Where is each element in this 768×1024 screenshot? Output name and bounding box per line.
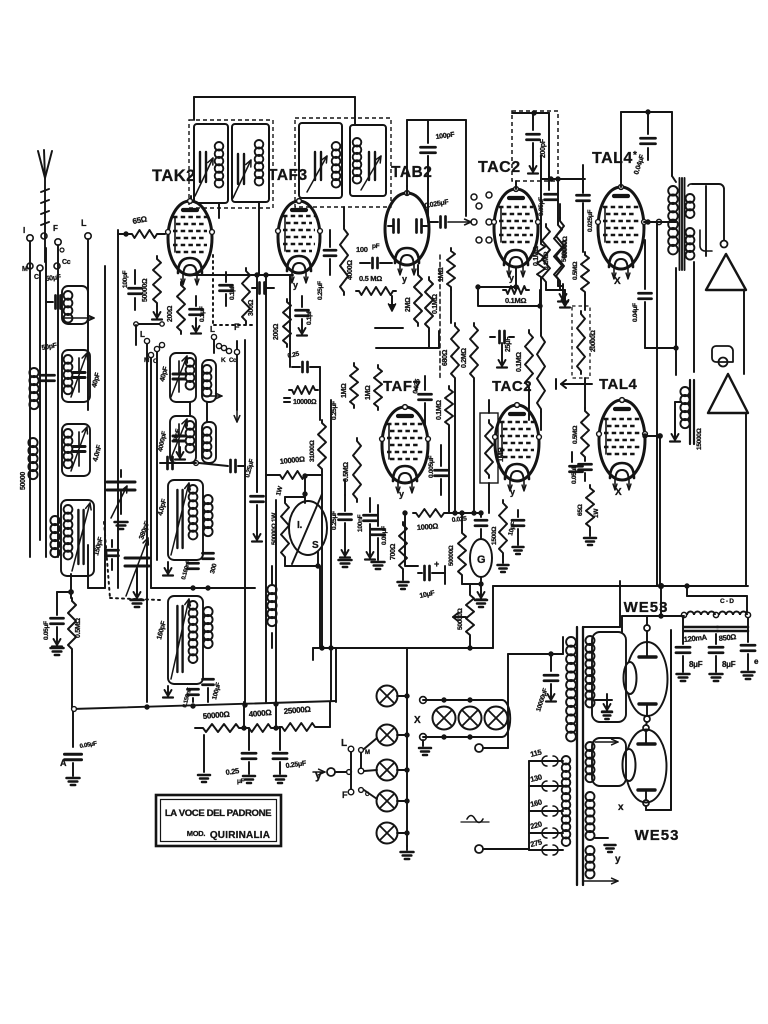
svg-text:25μF: 25μF (505, 336, 512, 352)
capacitor 0.025 (412, 376, 431, 425)
ground (198, 735, 210, 782)
wire (644, 219, 676, 224)
svg-text:y: y (293, 280, 298, 290)
wire (57, 245, 59, 557)
wire (70, 574, 72, 598)
T2 secondary coil (353, 138, 362, 184)
svg-text:8μF: 8μF (722, 660, 736, 669)
svg-text:1W: 1W (593, 508, 600, 518)
primary winding (566, 637, 576, 741)
resistor 4000ohm (340, 207, 354, 295)
svg-text:M: M (365, 750, 370, 756)
ground (670, 402, 681, 442)
coil L3 (50, 516, 59, 557)
wire loop (476, 285, 542, 308)
resistor 200ohm (273, 299, 291, 347)
wire (687, 586, 747, 612)
ground (51, 627, 64, 655)
resistor 0.5M (572, 408, 589, 460)
svg-text:0.04μF: 0.04μF (632, 303, 639, 322)
wire bus B-minus (313, 646, 493, 650)
svg-text:31000Ω: 31000Ω (309, 440, 316, 462)
T1 secondary box (232, 124, 269, 202)
svg-text:0.1MΩ: 0.1MΩ (505, 296, 526, 305)
svg-text:L: L (341, 738, 347, 749)
label 40pF (91, 371, 102, 388)
label 0.25uF (331, 401, 338, 420)
wire (234, 355, 240, 422)
svg-text:0.25μF: 0.25μF (317, 281, 324, 300)
svg-text:0.1MΩ: 0.1MΩ (516, 352, 523, 372)
coil C5b (203, 495, 212, 536)
resistor 10000ohm (284, 386, 318, 406)
svg-text:pF: pF (372, 243, 380, 250)
svg-text:0.25: 0.25 (225, 766, 240, 777)
resistor 1000ohm (413, 509, 447, 532)
coil AVC choke (267, 566, 276, 648)
resistor 50000ohm (554, 179, 568, 302)
label 100pF (356, 243, 380, 254)
ground arrow (389, 296, 396, 311)
terminal L (341, 738, 377, 756)
coil A1 (62, 286, 94, 324)
svg-text:WE53: WE53 (635, 827, 680, 844)
svg-text:K: K (221, 357, 226, 364)
svg-text:50000Ω: 50000Ω (457, 608, 464, 630)
wire (160, 402, 245, 472)
svg-text:I.: I. (297, 520, 302, 531)
capacitor (252, 283, 274, 294)
capacitor 8uF (741, 618, 759, 679)
wire (256, 275, 258, 492)
T1 primary trimmer (195, 152, 213, 196)
svg-text:F: F (234, 322, 240, 332)
wire (71, 652, 73, 709)
terminal K (159, 342, 164, 347)
wire (319, 367, 321, 420)
ground (274, 762, 286, 783)
svg-text:QUIRINALIA: QUIRINALIA (210, 830, 270, 841)
wire arrow (595, 739, 618, 745)
capacitor 0.25uF (317, 230, 336, 300)
wire (656, 222, 658, 586)
capacitor 8uF (709, 634, 736, 681)
wire (375, 328, 439, 348)
coil L2 (20, 438, 38, 490)
capacitor 0.25pF (287, 351, 320, 372)
svg-text:I: I (23, 226, 25, 235)
ground (191, 318, 201, 334)
svg-text:y: y (510, 487, 515, 497)
tube TAK2 (166, 199, 215, 285)
capacitor 100pF (122, 270, 142, 310)
svg-text:50000Ω: 50000Ω (142, 278, 149, 302)
label 160pF (156, 620, 168, 641)
resistor 20000ohm (572, 306, 597, 378)
tap coils (562, 756, 571, 846)
capacitor (360, 258, 392, 268)
resistor 1M (365, 365, 382, 410)
svg-text:M: M (22, 266, 28, 273)
title box (156, 795, 281, 846)
ground (475, 584, 487, 607)
ground (297, 319, 307, 336)
svg-text:0.1μF: 0.1μF (199, 306, 206, 322)
terminal I (23, 226, 33, 241)
svg-text:y: y (509, 273, 514, 283)
svg-text:65Ω: 65Ω (577, 504, 584, 516)
secondary winding 4 (586, 846, 595, 878)
svg-text:μF: μF (237, 778, 245, 785)
resistor 0.1M grid (503, 286, 529, 305)
ground (163, 686, 173, 698)
svg-text:F: F (342, 790, 348, 800)
svg-text:700Ω: 700Ω (390, 543, 397, 560)
resistor 4000ohm (246, 724, 274, 732)
wire (117, 230, 119, 588)
wire (643, 434, 662, 586)
wire top bus (191, 97, 355, 201)
capacitor (203, 553, 219, 574)
wire (622, 616, 684, 810)
resistor 65ohm (118, 214, 165, 238)
terminal (471, 192, 492, 200)
dial lamp 2 (377, 725, 398, 746)
magic eye G (470, 539, 492, 586)
svg-text:50000Ω: 50000Ω (561, 240, 568, 262)
coil C3 (170, 416, 196, 463)
ground (498, 556, 509, 572)
capacitor 100pF (421, 120, 456, 190)
resistor 0.1M (425, 277, 439, 348)
svg-text:50000Ω: 50000Ω (448, 545, 455, 566)
wire (541, 155, 585, 241)
capacitor 25uF (490, 331, 514, 352)
resistor 0.5M (343, 438, 361, 502)
wire (289, 275, 291, 367)
capacitor 0.005uF (428, 445, 448, 495)
svg-text:15000Ω: 15000Ω (696, 428, 703, 450)
coil C5 (168, 480, 203, 560)
terminal (471, 219, 492, 225)
resistor 10000ohm 1W (266, 454, 322, 496)
terminal F (234, 322, 240, 355)
terminal L (81, 218, 91, 239)
wire (515, 181, 517, 189)
IF transformer T2 outer box (295, 118, 391, 207)
wire (427, 156, 429, 222)
svg-text:X: X (414, 715, 421, 726)
secondary winding 2 (586, 742, 595, 782)
svg-text:0.025μF: 0.025μF (587, 210, 594, 232)
capacitor 50uF (46, 296, 61, 309)
ground (339, 523, 352, 567)
terminal C (153, 346, 160, 365)
svg-text:2MΩ: 2MΩ (405, 297, 412, 312)
capacitor 0.25uF (225, 728, 256, 785)
wire (313, 648, 336, 702)
svg-text:TAC2: TAC2 (478, 159, 521, 176)
resistor 50000ohm (142, 256, 162, 320)
ground (419, 740, 431, 755)
T1 secondary coil (255, 140, 264, 186)
wire (195, 702, 330, 730)
label TAC2 (492, 378, 532, 395)
ground (163, 562, 173, 576)
wire lamp bus (397, 648, 409, 846)
wire (321, 472, 323, 648)
wire (583, 581, 620, 627)
capacitor 0.04uF (633, 112, 655, 176)
dashed AVC line (439, 255, 441, 380)
svg-text:L: L (210, 325, 215, 334)
dial lamp 3 (377, 760, 398, 781)
capacitor 0.025uFb (583, 203, 594, 252)
terminal y (313, 768, 335, 782)
wire x (595, 700, 624, 813)
wire bus (186, 273, 293, 277)
wire (488, 400, 490, 513)
output transformer OT1 (668, 178, 694, 375)
wire loop (403, 511, 483, 566)
terminal F (342, 788, 377, 800)
wire (87, 239, 89, 410)
svg-text:C: C (34, 274, 39, 281)
svg-text:200Ω: 200Ω (167, 305, 174, 322)
resistor 1500ohm (491, 500, 507, 556)
svg-text:X: X (615, 487, 622, 498)
resistor 300ohm (242, 268, 255, 324)
wire (407, 120, 466, 216)
T2 secondary trimmer (361, 152, 381, 190)
wire bus (508, 637, 563, 656)
capacitor 0.25uF (273, 727, 307, 770)
svg-text:0.5MΩ: 0.5MΩ (572, 262, 579, 280)
tap labels (529, 747, 543, 848)
choke 850ohm (713, 612, 750, 643)
choke 120mA (681, 612, 718, 644)
wire bus bottom (72, 701, 336, 711)
svg-text:1MΩ: 1MΩ (341, 383, 348, 398)
capacitor A (60, 709, 98, 768)
svg-text:100pF: 100pF (122, 270, 129, 288)
resistor 2M (405, 265, 422, 326)
svg-text:1MΩ: 1MΩ (498, 447, 505, 462)
resistor 1M (341, 363, 358, 408)
resistor 0.1M (537, 241, 550, 333)
node (69, 590, 73, 594)
resistor 65ohm 1W (577, 485, 600, 545)
capacitor 0.25uF (244, 458, 263, 541)
wire (448, 219, 495, 225)
label 4000ohm (248, 708, 272, 719)
wire (303, 474, 307, 494)
secondary winding 1 (586, 636, 595, 707)
ground (372, 538, 385, 569)
wire (351, 752, 361, 789)
capacitor (181, 559, 198, 581)
capacitor 0.05uF (548, 113, 550, 180)
resistor 200ohm (167, 282, 185, 334)
wire (136, 325, 157, 560)
terminal (476, 237, 492, 243)
coil A3 (62, 424, 90, 476)
label TAK2 (152, 167, 196, 185)
resistor 50000ohm (200, 724, 242, 732)
speaker 2 (708, 346, 748, 586)
svg-text:Cc: Cc (62, 259, 71, 266)
svg-text:X: X (614, 276, 621, 287)
wire (88, 545, 105, 588)
T2 primary trimmer (307, 152, 327, 192)
svg-text:0.1MΩ: 0.1MΩ (432, 294, 439, 314)
label TAB2 (391, 164, 432, 181)
resistor 1M boxed (480, 413, 505, 483)
capacitor (42, 375, 55, 381)
svg-text:LA VOCE DEL PADRONE: LA VOCE DEL PADRONE (165, 808, 272, 819)
tube TAF3 (276, 199, 323, 290)
svg-text:0.5MΩ: 0.5MΩ (343, 462, 350, 482)
capacitor 0.1uF (296, 296, 314, 325)
terminal group (221, 357, 237, 364)
coil C4 (202, 422, 216, 463)
svg-text:TAL4: TAL4 (592, 150, 633, 167)
resistor (537, 333, 545, 430)
resistor 0.5M (572, 252, 589, 310)
AC squiggle (461, 816, 489, 823)
wire (319, 566, 321, 648)
coil L1 (29, 368, 38, 409)
label 50000ohm (202, 710, 230, 721)
resistor 0.5M (356, 274, 396, 295)
terminal C (34, 265, 43, 281)
wire (444, 566, 446, 584)
svg-text:0.005μF: 0.005μF (428, 456, 435, 478)
capacitor 0.025 (451, 513, 487, 539)
coil C6 (168, 596, 203, 684)
wire bus (151, 586, 255, 590)
T1 secondary trimmer (233, 154, 251, 198)
label TAC2 (478, 159, 521, 176)
svg-text:0.05μF: 0.05μF (571, 465, 578, 484)
tube TAC2 (492, 187, 541, 283)
wire (134, 322, 164, 702)
ground (365, 524, 375, 560)
lamp row (433, 707, 508, 730)
label 4.0pF (157, 498, 168, 517)
tube TAL4b (597, 398, 648, 498)
svg-text:MOD.: MOD. (187, 829, 206, 838)
capacitor 0.05uF (372, 505, 389, 545)
svg-text:850Ω: 850Ω (718, 632, 736, 643)
power input terminal (475, 845, 529, 853)
resistor 680ohm (442, 323, 459, 381)
svg-text:y: y (399, 489, 404, 499)
label 4.0nF (92, 444, 103, 463)
wire (595, 838, 621, 865)
padder capacitor (107, 470, 135, 529)
heater winding box b (592, 738, 626, 786)
ground (560, 290, 570, 308)
svg-text:x: x (618, 802, 624, 813)
label WE53 (635, 827, 680, 844)
capacitor (220, 272, 237, 306)
svg-text:+: + (434, 559, 439, 569)
svg-text:0.5MΩ: 0.5MΩ (572, 426, 579, 444)
heater winding box a (592, 632, 626, 722)
rectifier tube WE53 b (623, 722, 667, 806)
label TAL4 (599, 376, 638, 393)
wire (330, 400, 332, 700)
tap wires (529, 756, 563, 855)
T1 primary coil (215, 142, 224, 188)
wire (104, 266, 106, 588)
padder capacitor 380pF (106, 520, 152, 607)
wire (244, 340, 246, 702)
tube TAF7 (380, 405, 431, 499)
svg-text:TAC2: TAC2 (492, 378, 532, 395)
tube TAC2b (493, 403, 542, 497)
coil A2 (62, 350, 90, 402)
svg-text:1500Ω: 1500Ω (491, 527, 498, 545)
label 50uF (45, 274, 62, 283)
capacitor 8uF (676, 618, 703, 681)
svg-text:F: F (53, 224, 58, 233)
wire (29, 241, 31, 557)
svg-text:G: G (477, 554, 485, 566)
svg-text:TAL4: TAL4 (599, 376, 638, 393)
lamp row rails (420, 697, 511, 741)
svg-text:50000Ω 1W: 50000Ω 1W (271, 512, 278, 545)
svg-text:TAF3: TAF3 (268, 167, 308, 184)
terminal Cc (54, 259, 71, 269)
anode box TAC2 (512, 111, 558, 181)
T2 primary box (299, 123, 342, 198)
resistor 50000ohm (556, 204, 569, 284)
wire (478, 267, 518, 289)
capacitor 10uF (418, 559, 445, 600)
svg-text:10000Ω: 10000Ω (293, 399, 317, 406)
coil C2 (202, 360, 222, 402)
wire arrow (556, 379, 592, 389)
ground (67, 763, 80, 785)
capacitor 0.025uF (577, 165, 590, 201)
wire (455, 381, 529, 513)
wire (219, 202, 259, 275)
wire bus main (493, 584, 748, 589)
resistor 31000ohm (309, 420, 326, 472)
capacitor 0.05uF (570, 452, 583, 472)
capacitor 0.1uF (190, 296, 207, 322)
label C-D (720, 598, 734, 605)
capacitor 10uF (507, 510, 524, 554)
wire bus (492, 586, 494, 648)
terminal (476, 203, 482, 209)
coil C1 (170, 353, 196, 402)
coil C6b (203, 607, 212, 648)
resistor 50000ohm (448, 513, 481, 584)
ground (497, 343, 507, 368)
svg-text:0.25μF: 0.25μF (331, 511, 338, 530)
svg-text:20000Ω: 20000Ω (590, 330, 597, 352)
svg-text:0.2MΩ: 0.2MΩ (461, 348, 468, 368)
resistor 700ohm (390, 522, 409, 589)
title text (165, 808, 272, 841)
svg-text:0.05μF: 0.05μF (381, 526, 388, 545)
svg-text:8μF: 8μF (689, 660, 703, 669)
wire (275, 500, 277, 702)
ground (401, 846, 414, 859)
